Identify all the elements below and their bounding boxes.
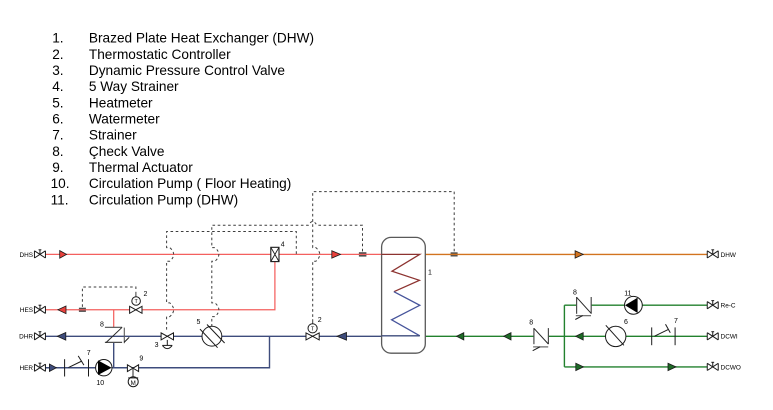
svg-text:Re-C: Re-C — [721, 303, 736, 310]
flow arrow DHR left (before HX) — [337, 333, 347, 341]
svg-text:Circulation Pump (DHW): Circulation Pump (DHW) — [89, 192, 238, 207]
flow arrow DCWI left 2 — [504, 333, 511, 340]
svg-text:9: 9 — [139, 356, 143, 363]
svg-text:10: 10 — [96, 380, 104, 387]
watermeter 6 — [606, 319, 629, 347]
svg-text:4.: 4. — [52, 79, 63, 94]
svg-text:9.: 9. — [52, 160, 63, 175]
svg-text:8: 8 — [100, 321, 104, 328]
heatmeter 5 — [197, 319, 225, 348]
legend list — [51, 31, 314, 208]
check valve 8 on Re-C — [573, 289, 591, 319]
circulation pump 10 (floor heating) — [96, 360, 112, 388]
svg-text:7: 7 — [87, 350, 91, 357]
svg-text:Heatmeter: Heatmeter — [89, 95, 153, 110]
svg-text:6: 6 — [624, 319, 628, 326]
svg-text:DHS: DHS — [20, 252, 34, 259]
cold side coil (blue) — [392, 292, 420, 336]
svg-text:8: 8 — [529, 320, 533, 327]
wire DHW outlet line (orange) — [425, 253, 707, 255]
circulation pump 11 (DHW) — [624, 290, 642, 314]
thermal actuator valve 9 — [127, 356, 143, 387]
svg-text:2: 2 — [144, 291, 148, 298]
terminal valve DHR — [34, 332, 45, 340]
svg-text:5.: 5. — [52, 95, 63, 110]
wire red drop from HES to check valve 8 — [113, 310, 115, 328]
strainer 7 on DCWI — [652, 318, 678, 345]
wire HES line (red) with riser to strainer 4 — [45, 262, 275, 310]
wire DCWI line (green) — [425, 335, 707, 337]
wire Re-C line (green) — [564, 304, 707, 306]
flow arrow DCWI left 3 — [576, 333, 584, 340]
svg-text:Dynamic Pressure Control Valve: Dynamic Pressure Control Valve — [89, 63, 285, 78]
svg-text:Thermostatic Controller: Thermostatic Controller — [89, 47, 231, 62]
wire DHS supply line (red) — [45, 253, 381, 255]
terminal valve HER — [34, 363, 45, 371]
terminal valve DCWO — [707, 362, 718, 370]
svg-text:Watermeter: Watermeter — [89, 112, 160, 127]
svg-text:10.: 10. — [51, 176, 70, 191]
terminal valve DHS — [34, 250, 45, 258]
dashed capillary loop A (HES sensor to valve 2) — [82, 287, 135, 307]
dashed line H2: DHS sensor to heatmeter 5 — [212, 222, 363, 327]
wire HER line (navy) with riser to DHR — [45, 336, 269, 367]
flow arrow DCWI left 1 — [457, 333, 464, 340]
thermostatic valve 2 on HES — [130, 291, 148, 314]
flow arrow DCWO right 2 — [668, 363, 676, 370]
strainer 7 on HER — [65, 350, 91, 377]
5 way strainer 4 — [271, 242, 285, 262]
svg-text:T: T — [311, 327, 315, 333]
sensor tick on DHW — [451, 252, 458, 256]
svg-text:Çheck Valve: Çheck Valve — [89, 144, 165, 159]
svg-text:2.: 2. — [52, 47, 63, 62]
svg-text:11: 11 — [624, 290, 631, 297]
svg-text:7: 7 — [674, 318, 678, 325]
svg-text:HER: HER — [20, 365, 34, 372]
svg-text:DCWI: DCWI — [721, 334, 738, 341]
wire green vertical bus — [563, 305, 565, 367]
flow arrow DHS right (before HX) — [332, 251, 341, 258]
svg-text:8.: 8. — [52, 144, 63, 159]
svg-text:1: 1 — [428, 270, 432, 277]
dynamic pressure control valve 3 — [155, 333, 174, 349]
sensor tick on DHS — [359, 252, 367, 256]
thermostatic valve 2 on DHR — [306, 317, 322, 340]
heat exchanger U1 body — [382, 237, 432, 353]
terminal valve Re-C — [707, 301, 718, 309]
flow arrow DCWO right 1 — [576, 363, 584, 370]
svg-text:11.: 11. — [51, 192, 69, 207]
svg-text:DHR: DHR — [19, 334, 33, 341]
svg-text:5: 5 — [197, 319, 201, 326]
flow arrow HES left — [58, 306, 66, 314]
svg-text:6.: 6. — [52, 112, 63, 127]
svg-text:4: 4 — [281, 242, 285, 249]
check valve 8 on DCWI — [529, 320, 548, 351]
svg-text:DCWO: DCWO — [721, 364, 741, 371]
sensor tick on HES — [79, 308, 86, 312]
terminal valve HES — [34, 305, 45, 313]
svg-text:3: 3 — [155, 342, 159, 349]
svg-text:Thermal Actuator: Thermal Actuator — [89, 160, 193, 175]
check valve 8 (vertical, left) — [100, 321, 129, 343]
svg-text:2: 2 — [318, 317, 322, 324]
wire DHR line (navy) — [45, 335, 381, 337]
flow arrow DHW right — [575, 251, 583, 258]
svg-text:1.: 1. — [52, 31, 63, 46]
svg-text:5 Way Strainer: 5 Way Strainer — [89, 79, 179, 94]
svg-text:Brazed Plate Heat Exchanger (D: Brazed Plate Heat Exchanger (DHW) — [89, 31, 314, 46]
svg-text:M: M — [131, 380, 136, 387]
flow arrow DHS right — [60, 251, 67, 259]
svg-text:HES: HES — [20, 307, 33, 314]
svg-text:DHW: DHW — [721, 252, 737, 259]
flow arrow HER right — [49, 364, 56, 372]
wire DCWO line (green) — [564, 366, 707, 368]
terminal valve DHW — [707, 250, 718, 258]
svg-text:Circulation Pump ( Floor Heati: Circulation Pump ( Floor Heating) — [89, 176, 291, 191]
svg-text:8: 8 — [573, 289, 577, 296]
dashed line H3: DHW sensor to valve 2 on DHR — [313, 192, 455, 320]
hot side coil (dark red) — [382, 254, 420, 291]
dashed line H1: DHS tap to valve 3 — [167, 232, 297, 333]
terminal valve DCWI — [707, 332, 718, 340]
wire navy drop from check valve 8 to HER — [113, 342, 115, 367]
svg-text:7.: 7. — [52, 128, 63, 143]
svg-text:3.: 3. — [52, 63, 63, 78]
flow arrow DHR left — [57, 333, 66, 341]
svg-text:Strainer: Strainer — [89, 128, 137, 143]
